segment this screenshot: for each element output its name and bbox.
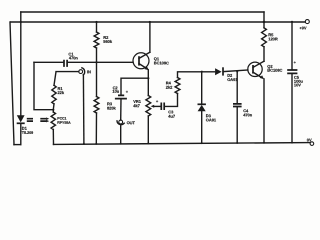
resistor R5 120R <box>262 28 278 47</box>
terminal 0V <box>307 137 314 145</box>
svg-text:0V: 0V <box>307 137 312 142</box>
wire +9V rail y=22 <box>11 21 306 23</box>
wire R5 top to rail junction <box>263 22 265 28</box>
wire Q1 collector to rail <box>149 22 151 52</box>
svg-text:BC109C: BC109C <box>154 60 169 65</box>
terminal +9V <box>299 20 309 31</box>
svg-text:4k7: 4k7 <box>133 103 140 108</box>
wire emitter node to VR1 <box>147 78 149 95</box>
wire C4 branch down <box>236 71 238 103</box>
node rail/collector junction <box>149 21 151 23</box>
svg-text:+9V: +9V <box>299 25 306 30</box>
wire C5 to 0V rail <box>291 74 293 143</box>
wire D3 branch down <box>201 72 203 105</box>
svg-text:10V: 10V <box>294 82 301 87</box>
wire left border vertical <box>10 22 14 145</box>
wire C4 to 0V rail <box>236 107 238 143</box>
capacitor C3 4u7 <box>156 99 176 119</box>
wire LED branch vertical x=20.6 <box>20 12 22 145</box>
wire bottom-left corner to LED cathode <box>14 144 21 146</box>
wire R1 bottom to junction <box>52 104 55 112</box>
node LED line / rail crossing blob <box>20 21 22 23</box>
wire R4 top corner and sidechain line to Q2 base <box>178 70 248 78</box>
wire VR1 bottom to 0V rail <box>147 116 149 144</box>
socket OUT jack <box>117 120 136 125</box>
wire input signal line y=62 into Q1 base <box>34 61 133 63</box>
wire IN jack ground tail <box>82 75 85 144</box>
svg-text:2k2: 2k2 <box>166 85 173 90</box>
wire D3 to 0V rail <box>201 111 203 143</box>
svg-text:OA91: OA91 <box>206 117 217 122</box>
socket IN jack <box>79 68 91 75</box>
node emitter junction <box>147 77 149 79</box>
wire emitter node left to C2 <box>121 78 148 95</box>
svg-text:560k: 560k <box>103 39 113 44</box>
resistor R1 22k <box>52 85 65 104</box>
wire base node down to R3 <box>96 62 98 96</box>
wire OUT jack ground to 0V rail <box>120 126 122 144</box>
wire C3 right lead up to R4 <box>164 94 177 107</box>
svg-text:470n: 470n <box>243 112 253 117</box>
wire Q2 emitter to 0V rail <box>263 79 265 143</box>
resistor R4 2k2 <box>166 78 180 94</box>
svg-text:820k: 820k <box>107 106 117 111</box>
wire R2 to base node <box>96 48 98 62</box>
resistor R3 820k <box>94 97 116 114</box>
wire right end of top line down to rail <box>263 12 265 22</box>
diode D3 OA91 <box>198 104 217 122</box>
node 0V rail junctions <box>83 142 293 145</box>
wire C2 to OUT jack <box>120 99 122 120</box>
wire input node hook (C1 left lead down to R1/PCC1 junction) <box>34 62 53 109</box>
node base bias junction <box>95 61 97 63</box>
node C4 junction <box>236 70 238 72</box>
node rail/R2 junction <box>95 21 97 23</box>
light arrows from LED to photocell <box>27 117 49 122</box>
wire IN jack to R1 top <box>54 72 79 86</box>
transistor Q1 BC109C <box>133 52 169 70</box>
node D3 junction <box>201 71 203 73</box>
wire top LED-anode line y=12 <box>21 11 264 13</box>
svg-text:120R: 120R <box>268 36 278 41</box>
svg-text:IN: IN <box>87 69 91 74</box>
svg-text:RPY58A: RPY58A <box>57 121 71 125</box>
potentiometer VR1 4k7 <box>133 96 161 117</box>
wire PCC1 bottom to 0V rail <box>52 130 54 145</box>
wire R3 bottom to 0V rail <box>95 113 97 144</box>
node R1/PCC1 junction <box>52 109 54 111</box>
svg-text:OUT: OUT <box>127 120 136 125</box>
node rail/R5/top-wire junction <box>263 21 266 24</box>
capacitor C1 470n <box>64 52 78 67</box>
capacitor C5 100u 10V <box>287 60 303 88</box>
resistor R2 560k <box>94 32 113 48</box>
svg-text:4u7: 4u7 <box>168 114 176 119</box>
transistor Q2 BC108C <box>248 61 283 79</box>
wire rail to R2 <box>96 22 98 32</box>
svg-text:470n: 470n <box>69 55 79 60</box>
LED D1 TIL209 <box>17 115 34 135</box>
photocell PCC1 RPY58A <box>51 112 71 130</box>
wire Q1 emitter down to emitter node <box>147 70 149 78</box>
svg-text:22k: 22k <box>57 90 64 95</box>
svg-text:BC108C: BC108C <box>267 68 282 73</box>
svg-text:10u: 10u <box>112 89 119 94</box>
capacitor C2 10u <box>112 85 128 98</box>
node C5 rail junction <box>291 21 293 23</box>
diode D2 OA91 <box>215 67 238 82</box>
capacitor C4 470n <box>233 104 253 118</box>
wire C5 branch from rail <box>291 22 293 70</box>
svg-text:TIL209: TIL209 <box>22 131 33 135</box>
wire Q2 collector up to R5 <box>263 47 265 61</box>
wire bottom 0V rail <box>54 143 310 145</box>
